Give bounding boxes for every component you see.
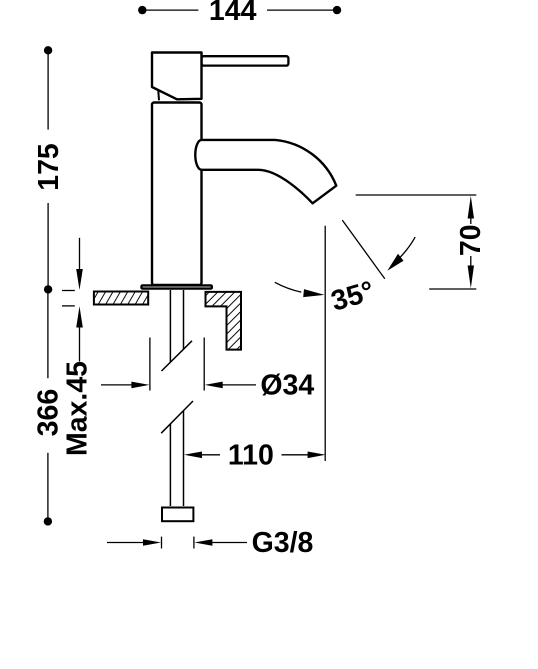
svg-text:110: 110 [228, 440, 274, 472]
arrow left to right extension [205, 382, 223, 389]
dot endpoint bottom of 366 [44, 517, 52, 525]
handle cartridge wedge [157, 91, 160, 100]
svg-text:144: 144 [209, 0, 257, 27]
dimension 366 (left lower) [47, 289, 49, 521]
label 175 (rotated) [33, 143, 65, 191]
dimension 110 (spout reach) [202, 454, 309, 456]
flow direction line at 35 deg [342, 220, 385, 279]
label 70 (rotated) [455, 224, 487, 256]
arrowhead of curved arrow at flow line [387, 254, 403, 271]
dimension 144 (top) [142, 9, 337, 11]
dot endpoint left of 144 [138, 6, 146, 14]
arrowhead of curved arrow at vertical line [303, 289, 324, 297]
svg-text:Ø34: Ø34 [260, 370, 314, 402]
svg-text:G3/8: G3/8 [252, 527, 314, 559]
arrow left to G38 right edge [194, 539, 212, 546]
lever arm [202, 56, 289, 65]
arrow right to vertical reference [308, 452, 326, 459]
dimension G3/8 (supply thread) [107, 537, 247, 549]
svg-text:Max.45: Max.45 [62, 361, 94, 456]
dimension 175 (left upper) [47, 50, 49, 289]
label 366 (rotated) [33, 389, 65, 437]
deck right L block (hatched) [206, 292, 242, 350]
arrow right to left extension [131, 382, 149, 389]
break line upper [162, 341, 193, 371]
label 35deg (rotated slightly) [328, 275, 378, 318]
svg-text:366: 366 [33, 389, 65, 437]
handle box [152, 53, 202, 100]
svg-text:175: 175 [33, 143, 65, 191]
arc of curved arrow [400, 237, 415, 257]
dot endpoint top of 175 [44, 46, 52, 54]
dimension 70 (right, spout height over deck) [356, 195, 477, 289]
spout [195, 140, 336, 203]
break line lower [161, 401, 193, 433]
shank upper segment [170, 290, 183, 362]
arrow up to spout level line [468, 196, 474, 219]
dot endpoint right of 144 [333, 6, 341, 14]
label Max.45 (rotated) [62, 361, 94, 456]
base plate [142, 285, 212, 288]
svg-text:70: 70 [455, 224, 487, 256]
dot endpoint shared 175/366 [44, 285, 52, 293]
arrow down to deck level line [468, 266, 474, 289]
angle 35 degrees [325, 220, 415, 461]
dimension diameter 34 [101, 338, 256, 391]
arrow right to G38 left edge [143, 539, 161, 546]
faucet body column [152, 103, 202, 286]
curved arrow toward vertical reference [275, 282, 302, 292]
vertical reference line from spout tip [324, 226, 326, 461]
arrow down to deck top [76, 269, 83, 290]
arrow left to shank line [184, 452, 202, 459]
shank lower segment [170, 411, 183, 506]
G3/8 connector block [162, 508, 193, 522]
deck left block (hatched) [94, 292, 148, 305]
dimension Max.45 (deck thickness) [62, 238, 80, 362]
arrow up to deck bottom [76, 306, 83, 327]
